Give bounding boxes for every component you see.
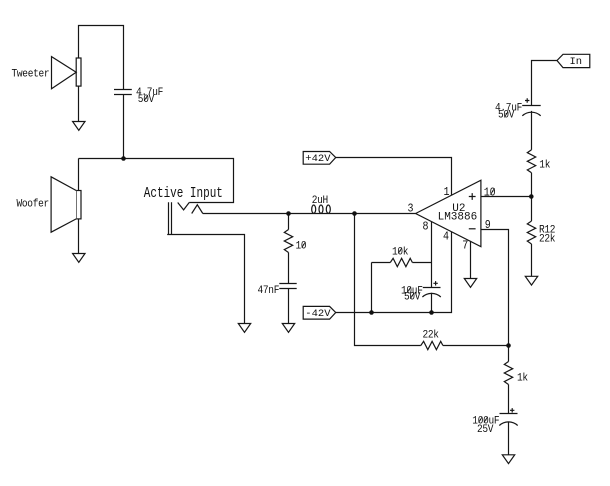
svg-text:8: 8 [423, 221, 429, 234]
svg-text:9: 9 [485, 219, 491, 232]
svg-text:+42V: +42V [305, 153, 331, 165]
svg-text:10: 10 [296, 240, 307, 253]
svg-text:50V: 50V [404, 291, 421, 304]
svg-text:3: 3 [408, 203, 414, 216]
svg-text:1k: 1k [517, 372, 528, 385]
svg-text:2uH: 2uH [312, 194, 328, 207]
svg-text:10: 10 [484, 187, 496, 200]
svg-text:50V: 50V [138, 93, 155, 106]
svg-text:1k: 1k [539, 159, 550, 172]
svg-text:In: In [570, 56, 583, 68]
svg-text:22k: 22k [423, 329, 439, 342]
svg-text:50V: 50V [498, 109, 515, 122]
svg-text:LM3886: LM3886 [438, 211, 478, 223]
svg-text:10k: 10k [392, 246, 408, 259]
svg-text:4: 4 [443, 231, 449, 244]
svg-text:Active Input: Active Input [144, 185, 223, 202]
svg-text:47nF: 47nF [258, 285, 280, 298]
svg-text:1: 1 [444, 187, 450, 200]
svg-text:Woofer: Woofer [17, 198, 49, 211]
svg-text:Tweeter: Tweeter [12, 68, 50, 81]
svg-text:7: 7 [462, 240, 468, 253]
svg-text:-42V: -42V [305, 308, 331, 320]
svg-text:25V: 25V [477, 423, 494, 436]
svg-text:22k: 22k [539, 233, 555, 246]
